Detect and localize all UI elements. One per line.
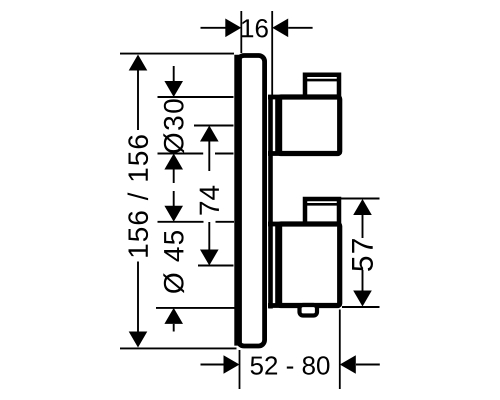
diameter 45 bottom boundary line [156,307,236,309]
156 top arrow [129,55,148,71]
57 dimension line segments [362,214,364,238]
diameter 30 top boundary line [158,96,234,98]
upper body bottom edge to sleeve [268,151,282,156]
lower body top edge to sleeve [268,222,282,227]
57 top arrow [353,199,372,215]
16 dimension left arrow [201,27,227,29]
74 top tick [194,125,234,127]
lower handle grip [305,199,339,226]
upper handle body [279,97,340,154]
52-80 dimension right arrow [356,364,380,366]
diameter 45 bottom outside arrow [164,308,183,324]
156 dimension line upper segment [137,69,139,130]
label 156 / 156 [128,135,149,256]
52-80 dimension left arrow [201,364,225,366]
16 left extension line [240,11,242,53]
57 bottom arrow [353,291,372,307]
upper grip face line [304,79,339,82]
lower body left edge thick [275,226,282,304]
diameter 45 top outside arrow [173,191,175,206]
16 right extension line [271,11,273,95]
52-80 right extension line [339,310,341,390]
faceplate left edge wall side [234,55,242,346]
functional unit sleeve edge [268,96,273,309]
lower handle body [279,224,340,306]
lower body bottom edge to sleeve [268,303,282,308]
16 dimension right arrow [288,27,312,29]
74 bottom arrow [200,250,219,266]
diameter 45 top boundary line [158,221,204,223]
upper body top edge to sleeve [268,95,282,100]
156 top extension line [120,53,234,55]
label diameter 45 [163,231,184,293]
upper handle grip [305,75,339,99]
diameter 30 bottom boundary line [158,153,204,155]
156 dimension line lower segment [137,262,139,334]
156 bottom extension line [120,347,237,349]
57 top extension line [341,198,380,200]
156 bottom arrow [129,332,148,348]
label 52 - 80 [251,356,330,374]
diameter 30 bottom outside arrow [164,154,183,170]
safety stop tab [300,305,318,316]
74 bottom tick [198,265,234,267]
74 top arrow [200,126,219,142]
label 16 [242,19,268,37]
faceplate outline [238,56,265,347]
label diameter 30 [163,99,184,153]
upper body left edge thick [275,99,282,152]
diameter 30 top outside arrow [173,66,175,82]
52-80 left extension line [239,350,241,389]
label 57 [352,239,373,271]
label 74 [200,186,219,215]
lower grip face line [304,203,339,206]
57 bottom extension line [342,306,380,308]
